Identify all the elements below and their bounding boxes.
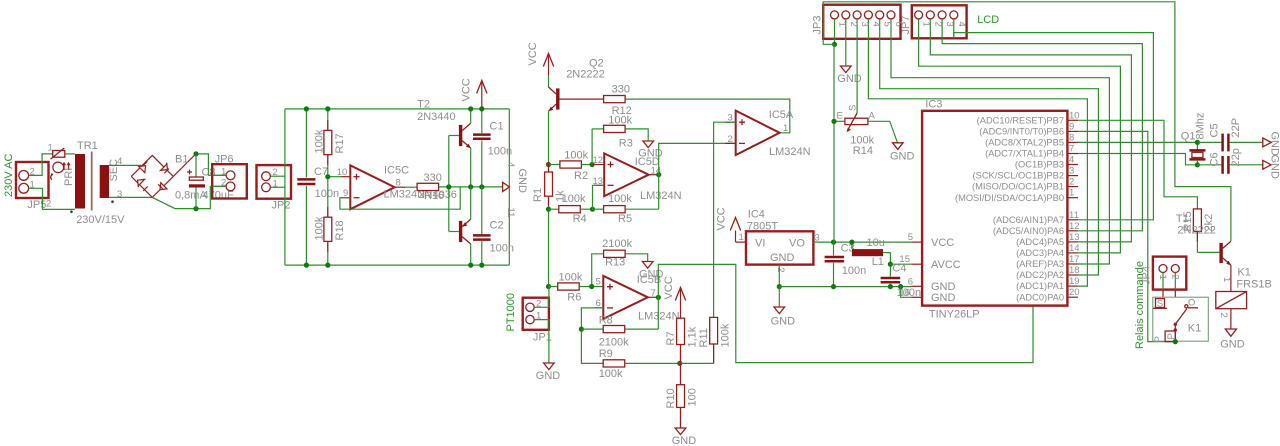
svg-text:100k: 100k <box>564 150 588 162</box>
wire reset top route <box>823 2 1231 241</box>
ground after R3 <box>638 141 663 160</box>
svg-text:100k: 100k <box>562 193 586 205</box>
resistor R11 <box>680 317 732 363</box>
svg-text:(ADC9/INT0/T0)PB6: (ADC9/INT0/T0)PB6 <box>979 127 1064 137</box>
svg-text:100k: 100k <box>313 216 325 240</box>
resistor R12 <box>604 84 632 118</box>
svg-text:R9: R9 <box>599 348 613 360</box>
svg-text:100n: 100n <box>488 146 512 158</box>
relay coil K1 <box>1216 267 1272 329</box>
svg-text:(SCK/SCL/OC1B)PB2: (SCK/SCL/OC1B)PB2 <box>973 171 1064 181</box>
wire L1 to AVCC <box>889 253 891 277</box>
svg-text:R18: R18 <box>334 220 346 240</box>
svg-text:14: 14 <box>1069 243 1080 254</box>
svg-text:R5: R5 <box>618 213 632 225</box>
svg-text:2N2222: 2N2222 <box>566 69 605 81</box>
op-amp IC5D <box>593 153 682 202</box>
transistor Q2 <box>549 58 605 112</box>
wire MCU pin10 to R15 <box>1078 120 1197 209</box>
resistor R3 <box>592 114 633 164</box>
svg-text:1: 1 <box>1221 277 1232 282</box>
svg-text:2: 2 <box>848 22 859 27</box>
wire resistor pin stubs (maroon) <box>328 120 1198 428</box>
svg-text:4: 4 <box>870 22 881 27</box>
voltage regulator IC4 <box>746 208 820 272</box>
svg-text:1: 1 <box>221 166 226 177</box>
junction emitters mid <box>468 184 473 189</box>
svg-text:GND: GND <box>890 151 915 163</box>
resistor R6 <box>549 272 605 304</box>
svg-text:GND: GND <box>1269 132 1280 157</box>
junction IC5B output <box>656 295 661 300</box>
svg-text:PT1000: PT1000 <box>505 293 517 332</box>
wire staircase JP7 pin3 to PA6 <box>942 38 1142 231</box>
svg-text:11: 11 <box>1069 210 1079 221</box>
supply VCC above C1 <box>461 78 488 109</box>
svg-text:GND: GND <box>771 316 796 328</box>
junction crystal top <box>1195 140 1200 145</box>
crystal Q1 <box>1181 113 1207 165</box>
svg-text:100k: 100k <box>720 323 732 347</box>
transformer TR1 <box>46 140 125 226</box>
junction T3 collector <box>468 263 473 268</box>
capacitor C1 <box>473 109 512 187</box>
transistor T3 <box>459 187 471 265</box>
op-amp IC5B <box>594 274 680 322</box>
junction R7 bottom node <box>677 361 682 366</box>
svg-text:C2: C2 <box>490 219 504 231</box>
ground virtual (mid rail) <box>503 169 528 194</box>
junction R17 top <box>325 106 330 111</box>
svg-text:R8: R8 <box>599 314 613 326</box>
svg-text:9: 9 <box>1069 121 1074 132</box>
wire staircase JP7 pin4 to PA7 <box>954 33 1154 220</box>
svg-text:1: 1 <box>783 123 788 134</box>
svg-text:P: P <box>1166 333 1177 339</box>
ground JP1 <box>536 363 561 382</box>
svg-text:100k: 100k <box>599 368 623 380</box>
wire AVCC <box>890 263 911 265</box>
ground R14 <box>890 143 915 163</box>
svg-text:C1: C1 <box>490 120 504 132</box>
svg-text:330: 330 <box>612 84 630 96</box>
ground R10 <box>672 428 697 446</box>
resistor R2 <box>549 150 593 182</box>
svg-text:R3: R3 <box>619 137 633 149</box>
wire left vertical rail <box>284 109 286 265</box>
svg-text:1: 1 <box>739 232 744 243</box>
svg-text:(MOSI/DI/SDA/OC1A)PB0: (MOSI/DI/SDA/OC1A)PB0 <box>955 193 1064 203</box>
ground K1 coil <box>1220 329 1245 350</box>
svg-text:TR1: TR1 <box>77 140 98 152</box>
svg-text:2: 2 <box>221 178 226 189</box>
svg-text:2N2222: 2N2222 <box>1177 225 1216 237</box>
relay contact K1 <box>1153 297 1209 342</box>
junction IC5D output <box>656 172 661 177</box>
junction R1 bottom node <box>546 207 551 212</box>
svg-text:230V AC: 230V AC <box>3 154 15 197</box>
wire Q2 emitter chain vertical <box>548 111 550 172</box>
svg-text:100n: 100n <box>315 188 339 200</box>
svg-text:LM324N: LM324N <box>769 146 811 158</box>
wire IC5D -in jog <box>593 185 605 209</box>
svg-text:E: E <box>837 111 843 122</box>
svg-text:2: 2 <box>775 267 786 272</box>
svg-text:1,1k: 1,1k <box>687 326 699 347</box>
svg-text:JP6: JP6 <box>215 153 234 165</box>
svg-text:100k: 100k <box>313 129 325 153</box>
svg-text:(AREF)PA3: (AREF)PA3 <box>1016 259 1064 269</box>
svg-text:100k: 100k <box>608 114 632 126</box>
svg-text:100n: 100n <box>490 243 514 255</box>
wire JP2 pin2 <box>270 175 285 177</box>
svg-text:K1: K1 <box>1237 267 1250 279</box>
junction bases node <box>446 184 451 189</box>
capacitor C7 <box>297 109 339 265</box>
svg-text:R13: R13 <box>605 256 625 268</box>
svg-text:T2: T2 <box>417 99 430 111</box>
wire R13 right to ground <box>625 254 648 262</box>
wire R16 to bases and mid rail <box>439 186 503 188</box>
wire top rail <box>285 108 509 110</box>
junction crystal bottom <box>1195 162 1200 167</box>
svg-text:JP7: JP7 <box>900 16 912 35</box>
wire bottom node to JP6 pin2 <box>196 186 226 208</box>
junction C2 bottom <box>479 263 484 268</box>
junction T2 collector <box>468 106 473 111</box>
svg-text:3: 3 <box>1069 166 1074 177</box>
svg-text:2: 2 <box>46 198 51 209</box>
svg-text:GND: GND <box>516 169 528 194</box>
svg-text:7805T: 7805T <box>747 220 778 232</box>
svg-text:R2: R2 <box>574 170 588 182</box>
wire staircase JP7 pin2 to PA5 <box>930 38 1131 242</box>
svg-text:20: 20 <box>1069 287 1080 298</box>
svg-text:GND: GND <box>1269 155 1280 180</box>
supply VCC above R7 <box>663 276 686 318</box>
svg-text:5: 5 <box>596 277 601 288</box>
junction VO at C3 <box>831 240 836 245</box>
bridge rectifier B1 <box>131 154 196 198</box>
IC IC3 TINY26LP <box>899 99 1079 321</box>
svg-text:R1: R1 <box>532 188 544 202</box>
capacitor C8 <box>187 154 234 209</box>
wire MCU pin7 to crystal bottom <box>1078 154 1197 165</box>
svg-text:GND: GND <box>837 73 862 85</box>
svg-text:2N3440: 2N3440 <box>417 111 456 123</box>
op-amp IC5C <box>337 165 425 210</box>
wire R13 left to IC5B +in <box>592 254 604 287</box>
svg-text:R17: R17 <box>334 133 346 153</box>
wire JP5 pin2 to fuse <box>29 154 53 176</box>
svg-text:230V/15V: 230V/15V <box>76 214 125 226</box>
wire gnd stem <box>778 287 780 307</box>
wire IC5C output to R16 <box>405 186 417 188</box>
connector JP3 <box>812 5 905 39</box>
junction divider tap <box>325 174 330 179</box>
connector JP2 <box>257 165 292 211</box>
svg-text:5: 5 <box>882 22 893 27</box>
svg-text:VCC: VCC <box>663 276 675 299</box>
svg-text:(ADC0)PA0: (ADC0)PA0 <box>1016 292 1064 302</box>
wire IC4 GND pin <box>778 265 780 287</box>
svg-text:2: 2 <box>932 22 943 27</box>
svg-text:PRI: PRI <box>63 168 75 186</box>
svg-text:C5: C5 <box>1209 123 1221 137</box>
junction L1 tap <box>849 240 854 245</box>
svg-text:2: 2 <box>1069 177 1074 188</box>
wire MCU pin8 to crystal top <box>1078 141 1197 143</box>
svg-text:1: 1 <box>921 22 932 27</box>
svg-text:8: 8 <box>396 178 401 189</box>
resistor R17 <box>313 109 346 177</box>
svg-text:JP2: JP2 <box>272 200 291 212</box>
svg-text:IC5C: IC5C <box>384 165 409 177</box>
svg-text:11: 11 <box>505 208 516 218</box>
wire staircase JP7 pin1 to PA4 <box>919 38 1121 253</box>
junction C7 bottom <box>304 263 309 268</box>
svg-text:LM324N: LM324N <box>640 190 682 202</box>
wire R12 to IC5A output <box>625 99 789 133</box>
svg-text:(ADC8/XTAL2)PB5: (ADC8/XTAL2)PB5 <box>985 138 1064 148</box>
resistor R15 <box>1182 209 1219 253</box>
junction R6 node <box>546 284 551 289</box>
svg-text:100: 100 <box>687 388 699 406</box>
potentiometer R14 <box>834 105 876 157</box>
svg-text:R4: R4 <box>573 213 587 225</box>
svg-text:3: 3 <box>944 22 955 27</box>
capacitor C6 <box>1197 148 1262 174</box>
wire bridge minus diagonal to bottom node <box>152 197 196 208</box>
svg-text:13: 13 <box>1069 232 1080 243</box>
svg-text:C6: C6 <box>1209 152 1221 166</box>
junction IC5B +in <box>589 284 594 289</box>
wire IC5B -in jog to R8/R9 <box>581 308 603 364</box>
svg-text:(ADC1)PA1: (ADC1)PA1 <box>1016 281 1064 291</box>
wire T3 base stub <box>449 231 459 233</box>
svg-text:VO: VO <box>789 238 805 250</box>
svg-text:GND: GND <box>770 252 795 264</box>
svg-text:2: 2 <box>1218 313 1229 318</box>
wire JP3 pin3 to R14 wiper <box>856 39 858 113</box>
svg-text:7: 7 <box>651 288 656 299</box>
svg-text:B1: B1 <box>175 154 188 166</box>
svg-text:10: 10 <box>337 167 348 178</box>
svg-text:R10: R10 <box>665 388 677 408</box>
svg-text:IC5D: IC5D <box>635 156 660 168</box>
wire JP4 pin2 to O contact <box>1174 290 1176 298</box>
ground C6 <box>1263 155 1280 180</box>
wire JP1 pin2 <box>534 287 549 308</box>
transistor T1 <box>1176 213 1231 292</box>
wire bottom rail <box>285 264 509 266</box>
fuse F1 <box>48 142 71 179</box>
svg-text:(ADC10/RESET)PB7: (ADC10/RESET)PB7 <box>977 115 1064 125</box>
capacitor C4 <box>881 263 921 300</box>
svg-text:5: 5 <box>908 232 913 243</box>
junction node bridge plus <box>193 151 198 156</box>
svg-text:18: 18 <box>1069 265 1080 276</box>
junction node bridge minus <box>193 206 198 211</box>
svg-text:(ADC4)PA5: (ADC4)PA5 <box>1016 237 1064 247</box>
junction C4 bottom <box>888 284 893 289</box>
supply VCC above Q2 <box>527 42 554 75</box>
wire staircase JP3 pin4 to PA1 <box>868 39 1087 286</box>
svg-text:3: 3 <box>859 22 870 27</box>
svg-text:6: 6 <box>908 276 913 287</box>
svg-text:15: 15 <box>899 254 910 265</box>
ground after R13 <box>639 262 664 281</box>
resistor R9 <box>599 348 680 380</box>
junction AVCC node <box>888 262 893 267</box>
capacitor C5 <box>1197 118 1262 151</box>
ground C5 <box>1263 132 1280 157</box>
wire IC5 power pins vertical <box>508 109 510 265</box>
wire TR1 sec pin3 to bridge <box>109 196 152 198</box>
capacitor C2 <box>473 187 514 265</box>
junction gnd rail branch <box>898 284 903 289</box>
svg-text:19: 19 <box>1069 276 1080 287</box>
svg-text:L1: L1 <box>872 256 884 268</box>
svg-text:8: 8 <box>1069 132 1074 143</box>
resistor R8 <box>581 314 658 348</box>
wire MCU pin9 to relay pole <box>1078 131 1175 341</box>
svg-text:IC4: IC4 <box>748 208 765 220</box>
svg-text:T1: T1 <box>1176 213 1189 225</box>
svg-text:VCC: VCC <box>716 207 728 230</box>
svg-text:P: P <box>1153 336 1164 342</box>
svg-text:C8: C8 <box>202 166 216 178</box>
junction C3 bottom <box>831 284 836 289</box>
svg-text:(ADC3)PA4: (ADC3)PA4 <box>1016 248 1064 258</box>
svg-text:22p: 22p <box>1230 148 1242 166</box>
supply VCC at IC4 <box>716 207 747 243</box>
wire staircase JP3 pin6 to PA3 <box>891 39 1109 264</box>
svg-text:R7: R7 <box>665 331 677 345</box>
junction C7 top <box>304 106 309 111</box>
svg-text:(ADC7/XTAL1)PB4: (ADC7/XTAL1)PB4 <box>985 149 1064 159</box>
connector JP4 <box>1141 257 1187 290</box>
transistor T2 <box>417 99 471 187</box>
connector JP1 <box>523 298 552 344</box>
capacitor C3 <box>825 242 867 287</box>
svg-text:A: A <box>869 111 876 122</box>
svg-text:GND: GND <box>931 292 956 304</box>
junction R8 left <box>579 327 584 332</box>
resistor R7 <box>665 318 699 363</box>
wire JP3 pin1 to VCC node <box>834 39 836 45</box>
wire JP2 pin1 <box>270 186 285 188</box>
wire JP3 pin2 to ground <box>845 39 847 66</box>
svg-text:TINY26LP: TINY26LP <box>929 309 980 321</box>
svg-text:(ADC2)PA2: (ADC2)PA2 <box>1016 270 1064 280</box>
svg-text:3: 3 <box>117 189 122 200</box>
wire VO rail to MCU VCC <box>813 241 911 243</box>
wire R8 to output <box>657 297 659 329</box>
junction R1 top node <box>546 162 551 167</box>
svg-text:S: S <box>848 105 859 111</box>
svg-text:17: 17 <box>1069 254 1080 265</box>
wire IC5D out to R5 and IC5A <box>659 143 736 209</box>
svg-text:16: 16 <box>899 287 910 298</box>
connector JP5 <box>16 162 49 211</box>
svg-text:VI: VI <box>755 238 765 250</box>
ground JP3 <box>837 66 862 85</box>
svg-text:0,8mA: 0,8mA <box>175 189 207 201</box>
svg-text:4: 4 <box>505 162 516 167</box>
svg-text:IC5A: IC5A <box>769 109 794 121</box>
svg-text:(OC1B)PB3: (OC1B)PB3 <box>1015 160 1064 170</box>
svg-text:10: 10 <box>1069 110 1080 121</box>
wire fuse to TR1 primary top <box>65 153 75 155</box>
svg-text:2: 2 <box>728 134 733 145</box>
svg-text:12: 12 <box>593 155 604 166</box>
wire staircase JP3 pin5 to PA2 <box>880 39 1099 275</box>
resistor R13 <box>602 238 632 268</box>
wire JP5 pin1 to TR1 primary bottom <box>29 188 75 209</box>
svg-text:K1: K1 <box>1188 323 1201 335</box>
inductor L1 <box>852 237 891 268</box>
svg-text:8Mhz: 8Mhz <box>1195 113 1207 140</box>
svg-text:O: O <box>1188 298 1195 309</box>
svg-text:IC3: IC3 <box>925 99 942 111</box>
wire bases vertical <box>448 136 450 232</box>
svg-text:R16: R16 <box>424 190 444 202</box>
wire gnd rail to pin16 <box>901 287 912 298</box>
resistor R4 <box>549 193 593 225</box>
wire gnd rail below IC4 <box>779 286 911 288</box>
svg-text:FRS1B: FRS1B <box>1236 279 1271 291</box>
svg-text:GND: GND <box>1220 338 1245 350</box>
svg-text:12: 12 <box>1069 221 1080 232</box>
svg-text:IC5B: IC5B <box>637 274 661 286</box>
junction IC5D +in node <box>590 162 595 167</box>
junction relay pole <box>1173 339 1178 344</box>
svg-text:(ADC5/AIN0)PA6: (ADC5/AIN0)PA6 <box>993 226 1064 236</box>
wire JP4 pin1 to S contact <box>1162 290 1164 298</box>
wire divider to IC5C +input <box>328 176 341 178</box>
connector JP6 <box>212 153 247 198</box>
svg-text:330: 330 <box>424 172 442 184</box>
wire IC5C feedback <box>340 187 460 209</box>
svg-text:R14: R14 <box>853 145 873 157</box>
svg-text:2100k: 2100k <box>599 337 629 349</box>
svg-text:JP3: JP3 <box>812 16 824 35</box>
wire R3 to ground <box>625 129 648 141</box>
svg-text:JP4: JP4 <box>1141 266 1153 285</box>
wire IC5A +in to R11 <box>714 122 736 317</box>
svg-text:VCC: VCC <box>931 237 954 249</box>
svg-text:4: 4 <box>956 22 967 27</box>
junction C1 bottom <box>479 184 484 189</box>
svg-text:R11: R11 <box>698 328 710 347</box>
svg-text:10u: 10u <box>867 237 885 249</box>
junction JP3 pin1 <box>832 42 837 47</box>
svg-text:AVCC: AVCC <box>931 259 961 271</box>
svg-text:100k: 100k <box>559 272 583 284</box>
junction C1 top <box>479 106 484 111</box>
svg-text:(ADC6/AIN1)PA7: (ADC6/AIN1)PA7 <box>993 215 1064 225</box>
wire IC5B output to MCU ADC0 <box>658 264 1033 362</box>
svg-text:100n: 100n <box>842 265 866 277</box>
wire TR1 sec pin4 to bridge <box>109 164 142 166</box>
svg-text:Q1: Q1 <box>1181 130 1196 142</box>
svg-text:1: 1 <box>48 142 53 153</box>
op-amp IC5A <box>725 109 811 158</box>
wire VCC vertical to VO rail <box>833 44 835 242</box>
svg-text:(MISO/DO/OC1A)PB1: (MISO/DO/OC1A)PB1 <box>972 182 1064 192</box>
svg-text:100k: 100k <box>608 193 632 205</box>
